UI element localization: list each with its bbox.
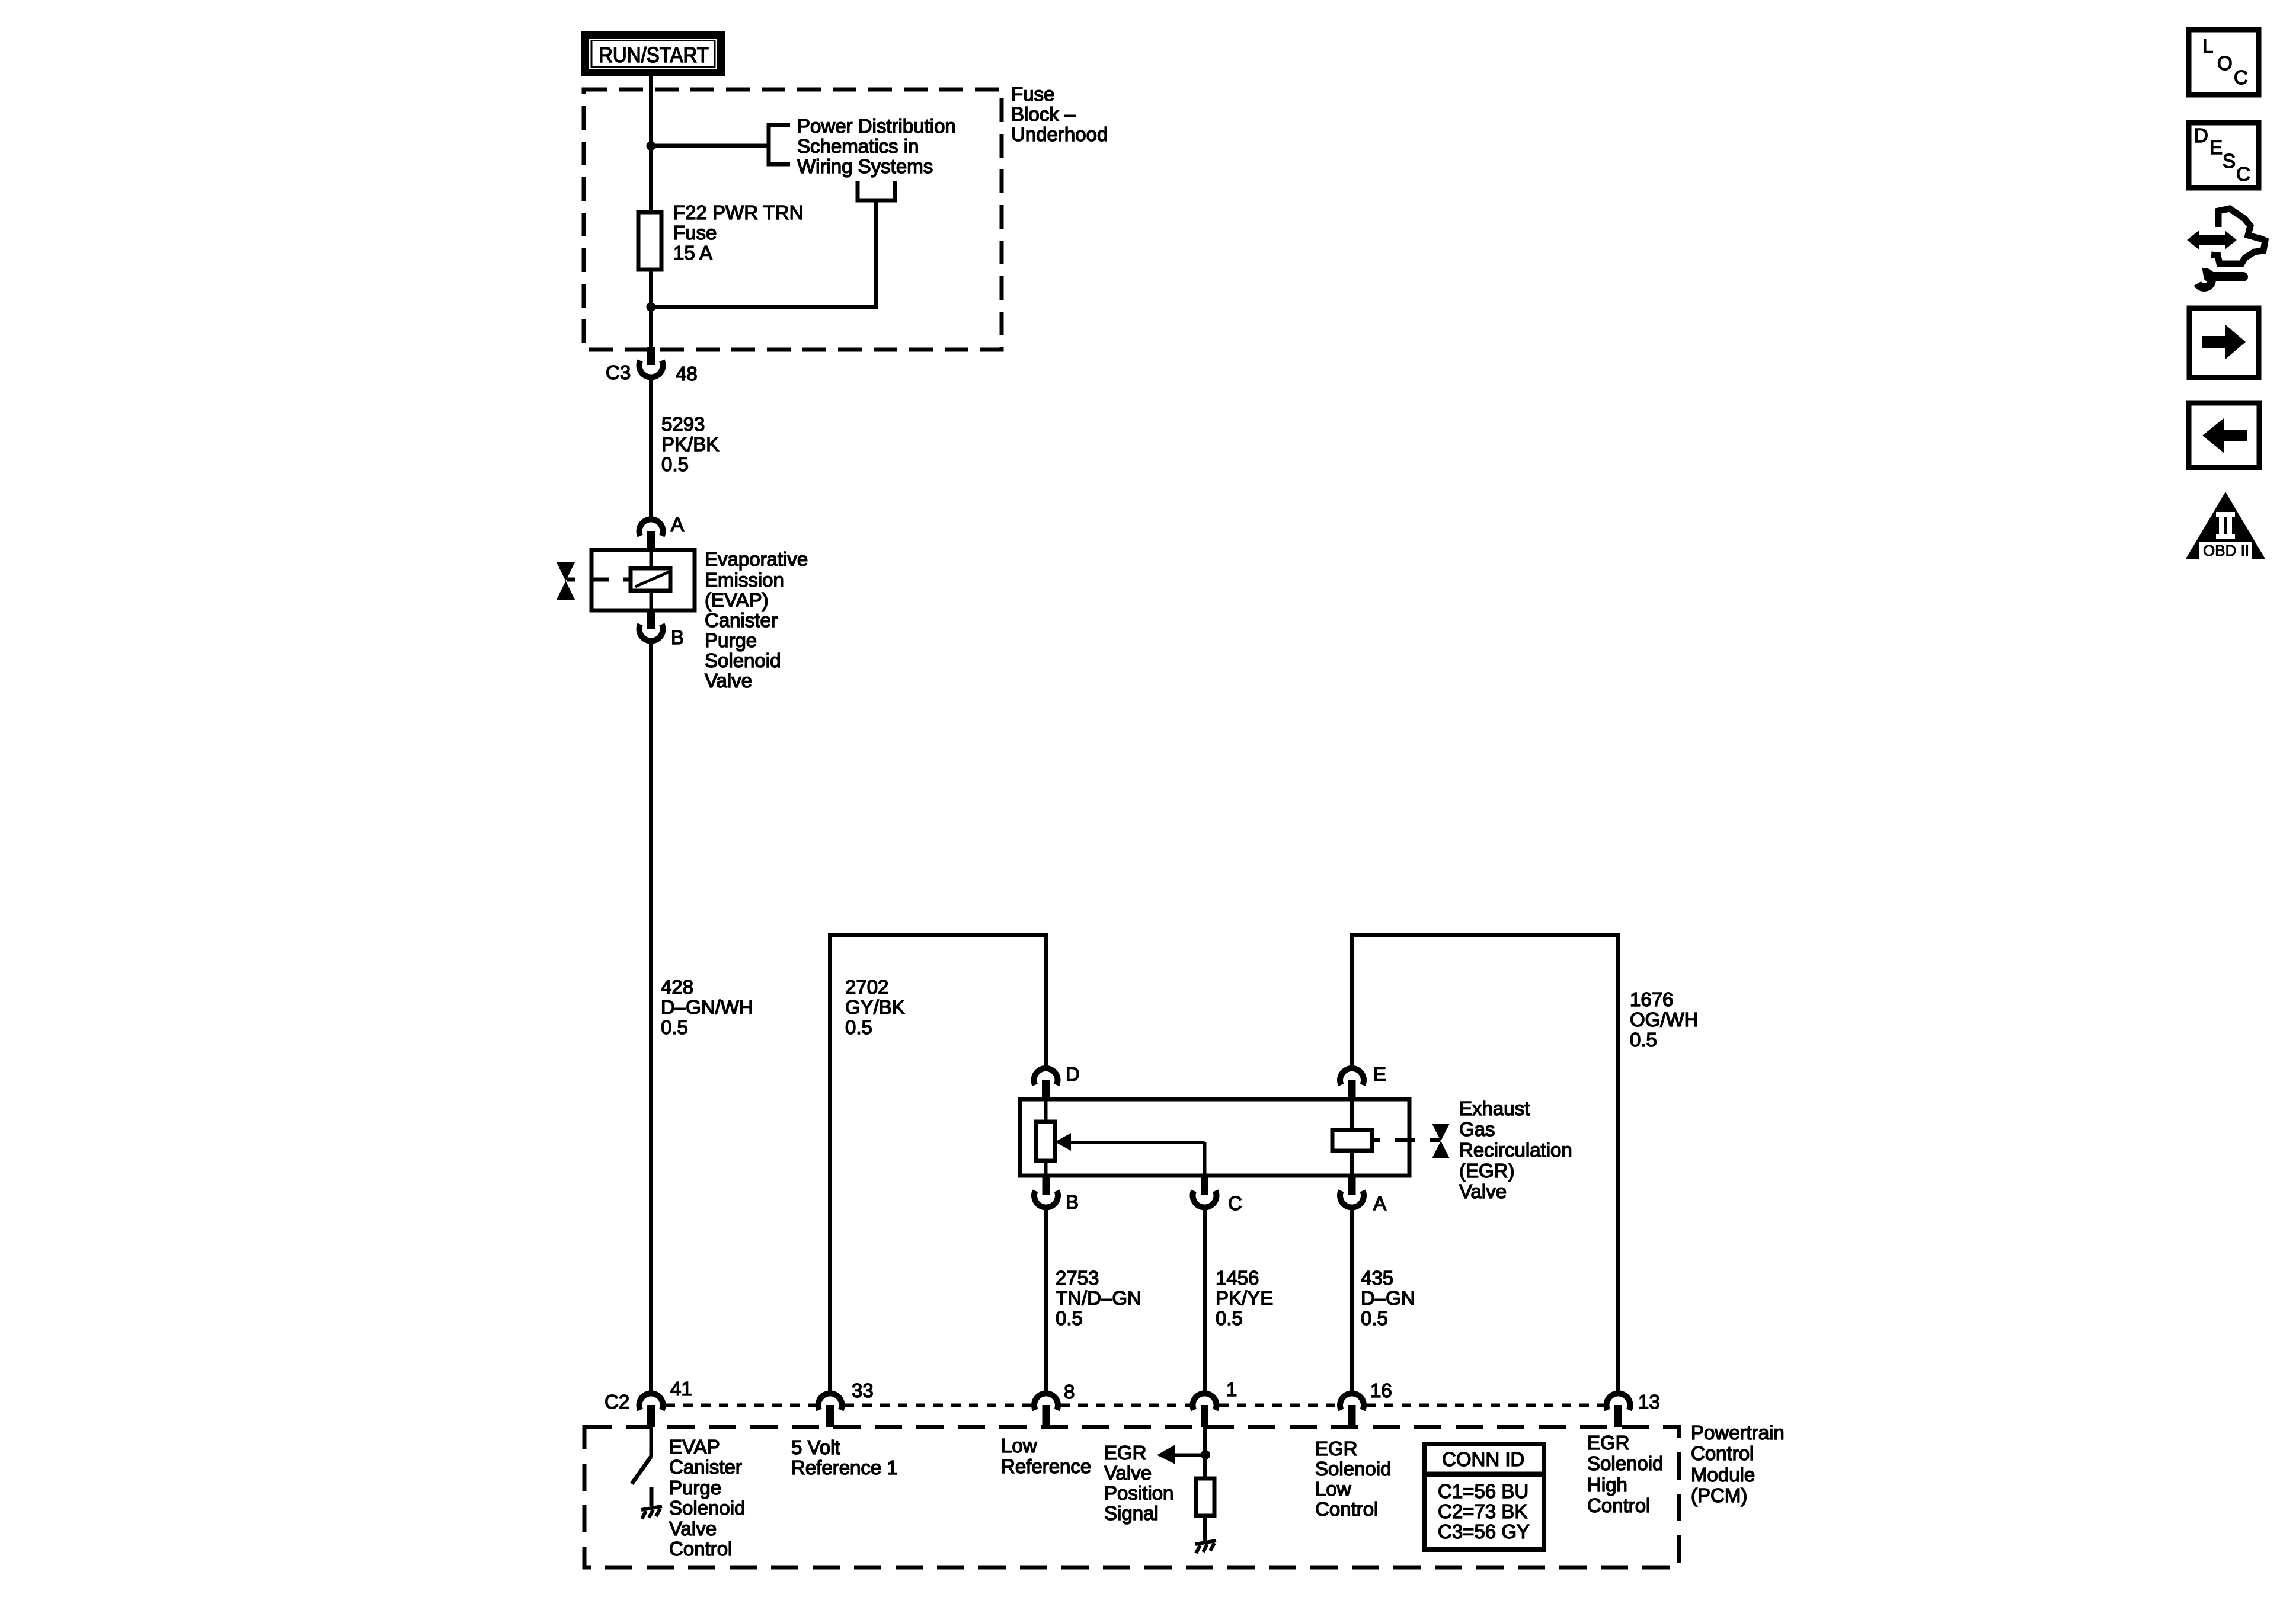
svg-text:E: E: [1373, 1063, 1386, 1085]
connector C3 pin 48: [606, 347, 698, 385]
svg-text:Control: Control: [1315, 1498, 1378, 1520]
svg-text:TN/D–GN: TN/D–GN: [1056, 1287, 1141, 1309]
wire branch to power distribution note: [651, 144, 769, 148]
svg-text:C: C: [2234, 66, 2248, 88]
wire 1676 loop from connector E up and over to pin 13: [1352, 935, 1619, 1391]
label EVAP Canister Purge Solenoid Valve Control: [669, 1436, 745, 1560]
svg-text:0.5: 0.5: [845, 1016, 872, 1038]
label 5 Volt Reference 1: [791, 1436, 898, 1478]
svg-text:5 Volt: 5 Volt: [791, 1436, 840, 1458]
svg-text:Schematics in: Schematics in: [797, 135, 919, 157]
node C2 harness dotted line: [666, 1404, 1604, 1407]
svg-text:S: S: [2223, 150, 2236, 172]
svg-text:PK/YE: PK/YE: [1216, 1287, 1273, 1309]
wire from note bracket to lower junction: [651, 200, 877, 307]
label wire 1456 PK/YE 0.5: [1216, 1267, 1273, 1329]
svg-text:428: 428: [661, 976, 693, 998]
svg-text:Low: Low: [1315, 1478, 1351, 1500]
connector A of EVAP solenoid: [639, 513, 685, 550]
svg-text:33: 33: [852, 1379, 874, 1401]
node bracket to Power Distribution note: [769, 125, 790, 164]
label EGR Valve Position Signal: [1104, 1442, 1173, 1524]
svg-text:Exhaust: Exhaust: [1459, 1097, 1530, 1119]
node junction dot lower: [647, 302, 656, 312]
valve symbol EVAP (bowtie): [557, 562, 575, 600]
svg-text:0.5: 0.5: [661, 453, 689, 475]
svg-text:1456: 1456: [1216, 1267, 1259, 1289]
svg-text:1: 1: [1226, 1378, 1237, 1400]
svg-text:D: D: [1066, 1063, 1080, 1085]
ground inside PCM below resistor: [1195, 1541, 1216, 1553]
svg-text:C2=73 BK: C2=73 BK: [1438, 1500, 1527, 1522]
svg-text:0.5: 0.5: [1056, 1307, 1083, 1329]
svg-text:Control: Control: [1587, 1494, 1650, 1516]
label wire 428 D-GN/WH 0.5: [661, 976, 753, 1038]
svg-text:EGR: EGR: [1104, 1442, 1147, 1464]
resistor inside PCM on pin 1: [1196, 1427, 1214, 1541]
svg-text:EGR: EGR: [1587, 1432, 1630, 1454]
svg-text:Valve: Valve: [705, 670, 752, 692]
svg-text:Gas: Gas: [1459, 1118, 1495, 1140]
label Exhaust Gas Recirculation (EGR) Valve: [1459, 1097, 1572, 1202]
EVAP canister purge solenoid valve box: [591, 550, 695, 610]
svg-text:Solenoid: Solenoid: [1587, 1452, 1663, 1474]
svg-text:435: 435: [1361, 1267, 1393, 1289]
svg-text:C3: C3: [606, 361, 631, 383]
connector A of EGR valve: [1340, 1176, 1386, 1214]
svg-text:Valve: Valve: [1104, 1462, 1152, 1484]
svg-text:0.5: 0.5: [661, 1016, 688, 1038]
PCM dashed box: [584, 1427, 1679, 1567]
label wire 2753 TN/D-GN 0.5: [1056, 1267, 1141, 1329]
signal arrow inside PCM on pin 1: [1157, 1445, 1210, 1464]
svg-text:O: O: [2217, 52, 2233, 74]
icon LOC box: [2189, 30, 2259, 95]
connector pin 13: [1606, 1391, 1659, 1427]
node bracket below note: [858, 181, 895, 200]
svg-text:High: High: [1587, 1474, 1627, 1496]
connector C2 pin 41: [605, 1378, 692, 1427]
wire 428 from EVAP B down to PCM pin 41: [649, 644, 653, 1391]
svg-text:16: 16: [1370, 1379, 1392, 1401]
svg-text:Wiring Systems: Wiring Systems: [797, 155, 933, 177]
label F22 PWR TRN Fuse 15 A: [673, 201, 803, 264]
label Fuse Block Underhood: [1011, 83, 1108, 145]
svg-text:PK/BK: PK/BK: [661, 433, 719, 455]
wire 2753 from EGR B to pin 8: [1044, 1210, 1048, 1391]
svg-text:(PCM): (PCM): [1691, 1484, 1747, 1506]
potentiometer in EGR valve: [1036, 1099, 1055, 1176]
label wire 5293 PK/BK 0.5: [661, 413, 719, 475]
svg-text:D: D: [2194, 124, 2208, 146]
wire C3 to connector A: [649, 380, 653, 517]
svg-text:Solenoid: Solenoid: [1315, 1458, 1391, 1480]
svg-text:Control: Control: [1691, 1442, 1754, 1464]
svg-text:Low: Low: [1001, 1435, 1037, 1457]
svg-text:OG/WH: OG/WH: [1630, 1009, 1698, 1030]
svg-text:EVAP: EVAP: [669, 1436, 720, 1458]
svg-text:EGR: EGR: [1315, 1438, 1358, 1459]
wiper arrow of EGR potentiometer: [1055, 1133, 1205, 1176]
svg-text:Fuse: Fuse: [673, 222, 717, 244]
svg-text:A: A: [1373, 1192, 1386, 1214]
svg-text:13: 13: [1638, 1391, 1660, 1413]
svg-text:GY/BK: GY/BK: [845, 996, 905, 1018]
svg-text:OBD II: OBD II: [2203, 542, 2249, 559]
dashed actuator link EGR: [1372, 1138, 1380, 1142]
label Low Reference: [1001, 1435, 1091, 1477]
svg-text:48: 48: [676, 363, 698, 385]
svg-text:5293: 5293: [661, 413, 705, 435]
valve symbol EGR (bowtie): [1432, 1124, 1450, 1158]
connector D of EGR valve: [1034, 1063, 1080, 1099]
svg-text:Underhood: Underhood: [1011, 123, 1108, 145]
fuse block underhood dashed box: [584, 89, 1002, 350]
svg-text:RUN/START: RUN/START: [599, 43, 709, 67]
svg-text:D–GN/WH: D–GN/WH: [661, 996, 753, 1018]
svg-text:Module: Module: [1691, 1464, 1755, 1486]
svg-text:Signal: Signal: [1104, 1502, 1159, 1524]
label wire 2702 GY/BK 0.5: [845, 976, 905, 1038]
svg-text:E: E: [2209, 136, 2223, 158]
svg-text:2702: 2702: [845, 976, 888, 998]
icon wiring repair (arrows, outline, wrench): [2187, 209, 2265, 287]
svg-text:C3=56 GY: C3=56 GY: [1438, 1521, 1530, 1542]
label Power Distribution Schematics in Wiring Systems: [797, 115, 956, 177]
svg-text:A: A: [671, 513, 684, 535]
svg-text:Reference: Reference: [1001, 1455, 1091, 1477]
svg-text:Emission: Emission: [705, 569, 784, 591]
wire 2702 loop from pin 33 up and over to connector D: [830, 935, 1046, 1391]
svg-text:1676: 1676: [1630, 988, 1673, 1010]
solenoid coil of EVAP valve: [631, 568, 670, 591]
svg-text:8: 8: [1064, 1381, 1075, 1403]
wire 1456 from EGR C to pin 1: [1203, 1210, 1207, 1391]
label wire 1676 OG/WH 0.5: [1630, 988, 1698, 1051]
svg-text:Reference 1: Reference 1: [791, 1457, 898, 1478]
svg-text:(EVAP): (EVAP): [705, 589, 769, 611]
svg-text:Fuse: Fuse: [1011, 83, 1054, 105]
svg-text:C: C: [2236, 163, 2250, 185]
svg-text:(EGR): (EGR): [1459, 1160, 1515, 1182]
svg-text:Valve: Valve: [1459, 1180, 1507, 1202]
connector pin 1: [1192, 1378, 1237, 1427]
svg-text:B: B: [671, 626, 684, 648]
svg-text:Powertrain: Powertrain: [1691, 1422, 1785, 1443]
wire 435 from EGR A to pin 16: [1350, 1210, 1354, 1391]
svg-text:Recirculation: Recirculation: [1459, 1139, 1572, 1161]
icon DESC box: [2189, 123, 2259, 188]
connector B of EVAP solenoid: [639, 610, 685, 648]
svg-text:Evaporative: Evaporative: [705, 548, 808, 570]
svg-text:Valve: Valve: [669, 1518, 717, 1539]
switch inside PCM on pin 41: [632, 1427, 651, 1484]
svg-text:Control: Control: [669, 1538, 732, 1560]
icon OBD II triangle: [2186, 492, 2265, 559]
dashed actuator link EVAP: [567, 578, 575, 582]
svg-text:2753: 2753: [1056, 1267, 1099, 1289]
CONN ID table: [1424, 1444, 1544, 1550]
connector C of EGR valve: [1192, 1176, 1242, 1214]
svg-text:F22 PWR TRN: F22 PWR TRN: [673, 201, 803, 223]
svg-text:15 A: 15 A: [673, 242, 712, 264]
wire main vertical from RUN/START through fuse block: [649, 76, 653, 347]
label Powertrain Control Module (PCM): [1691, 1422, 1785, 1506]
svg-text:0.5: 0.5: [1630, 1029, 1657, 1051]
connector E of EGR valve: [1340, 1063, 1386, 1099]
svg-text:Solenoid: Solenoid: [669, 1497, 745, 1519]
svg-text:Block –: Block –: [1011, 103, 1076, 125]
label EGR Solenoid High Control: [1587, 1432, 1663, 1516]
label EGR Solenoid Low Control: [1315, 1438, 1391, 1520]
label wire 435 D-GN 0.5: [1361, 1267, 1415, 1329]
svg-text:Solenoid: Solenoid: [705, 649, 781, 671]
svg-text:C: C: [1228, 1192, 1242, 1214]
connector pin 33: [818, 1379, 874, 1427]
svg-text:Power Distribution: Power Distribution: [797, 115, 956, 137]
EGR valve box: [1020, 1099, 1409, 1176]
svg-text:B: B: [1066, 1191, 1079, 1213]
solenoid coil of EGR valve: [1332, 1099, 1372, 1176]
svg-text:Canister: Canister: [705, 609, 778, 631]
svg-text:D–GN: D–GN: [1361, 1287, 1415, 1309]
icon back arrow box: [2189, 403, 2259, 468]
svg-text:C1=56 BU: C1=56 BU: [1438, 1480, 1528, 1502]
svg-text:0.5: 0.5: [1361, 1307, 1388, 1329]
icon forward arrow box: [2189, 308, 2259, 377]
label Evaporative Emission (EVAP) Canister Purge Solenoid Valve: [705, 548, 808, 692]
svg-text:Canister: Canister: [669, 1456, 742, 1478]
svg-text:CONN ID: CONN ID: [1442, 1448, 1524, 1470]
connector pin 8: [1034, 1381, 1075, 1427]
svg-text:Purge: Purge: [705, 629, 757, 651]
fuse F22 PWR TRN 15A: [638, 212, 661, 270]
svg-text:0.5: 0.5: [1216, 1307, 1243, 1329]
svg-text:L: L: [2202, 35, 2213, 57]
connector pin 16: [1340, 1379, 1392, 1427]
svg-text:C2: C2: [605, 1391, 629, 1413]
node junction dot upper: [647, 141, 656, 151]
node RUN/START power feed box: [581, 31, 725, 76]
connector B of EGR valve: [1034, 1176, 1079, 1213]
svg-text:Purge: Purge: [669, 1477, 721, 1499]
svg-text:Position: Position: [1104, 1482, 1173, 1504]
svg-text:41: 41: [670, 1378, 692, 1400]
ground inside PCM below switch: [641, 1487, 662, 1519]
